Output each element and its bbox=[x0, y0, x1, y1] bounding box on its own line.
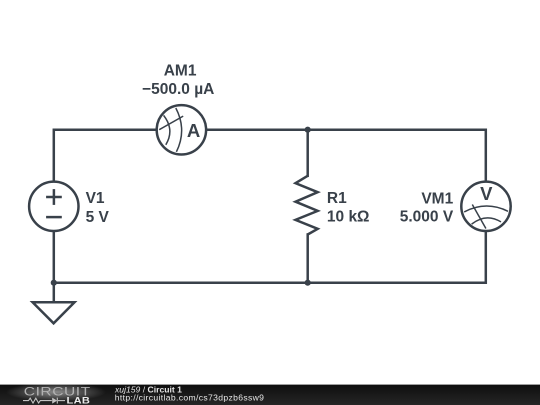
junction node top bbox=[305, 127, 311, 133]
junction node bottom bbox=[305, 280, 311, 286]
voltmeter VM1 bbox=[461, 182, 510, 231]
svg-text:V1: V1 bbox=[86, 190, 105, 207]
ground bbox=[33, 302, 75, 323]
wire resistor branch top bbox=[306, 130, 309, 176]
svg-text:VM1: VM1 bbox=[421, 191, 453, 208]
svg-text:5 V: 5 V bbox=[86, 209, 110, 226]
svg-text:AM1: AM1 bbox=[164, 62, 197, 79]
wire resistor branch bottom bbox=[306, 235, 309, 283]
svg-text:http://circuitlab.com/cs73dpzb: http://circuitlab.com/cs73dpzb6ssw9 bbox=[115, 393, 264, 403]
wire top rail bbox=[54, 130, 486, 182]
ammeter AM1 bbox=[157, 105, 206, 154]
svg-text:A: A bbox=[187, 120, 200, 141]
svg-text:LAB: LAB bbox=[67, 396, 91, 405]
wire ground stem bbox=[53, 283, 56, 303]
svg-text:V: V bbox=[480, 183, 493, 204]
junction node ground bbox=[51, 280, 57, 286]
voltage source V1 bbox=[29, 182, 78, 231]
wire bottom rail bbox=[54, 231, 486, 283]
resistor R1 bbox=[296, 176, 318, 235]
svg-text:R1: R1 bbox=[327, 190, 347, 207]
svg-text:−500.0 µA: −500.0 µA bbox=[142, 81, 214, 98]
svg-text:5.000 V: 5.000 V bbox=[400, 208, 454, 225]
svg-text:10 kΩ: 10 kΩ bbox=[327, 209, 370, 226]
